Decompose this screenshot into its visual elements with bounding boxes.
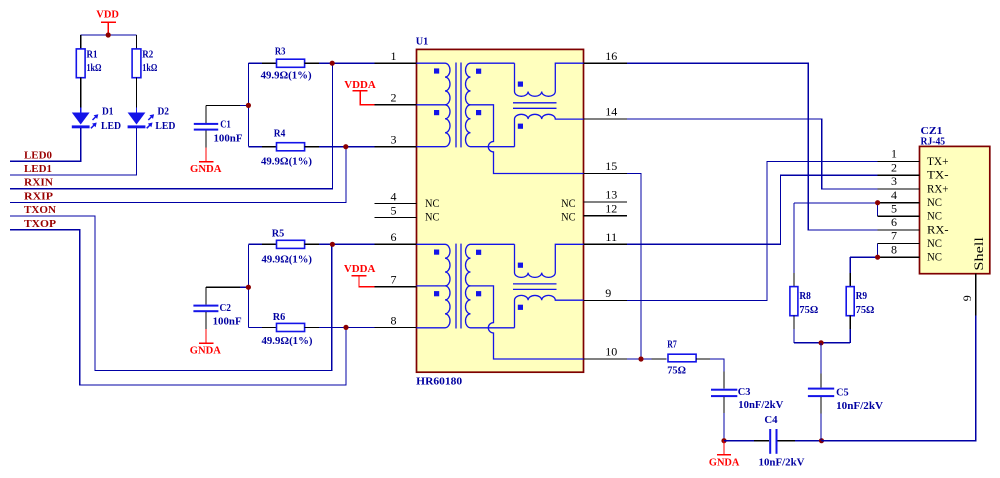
LED D1 (72, 105, 121, 132)
svg-text:8: 8 (891, 243, 897, 257)
svg-text:10nF/2kV: 10nF/2kV (759, 457, 805, 469)
svg-text:RXIP: RXIP (24, 190, 53, 202)
choke winding lower (upper) (515, 114, 584, 146)
choke core (lower) (513, 284, 557, 290)
wire R8-R9 rail (794, 342, 850, 344)
pin 10 of U1 (584, 345, 628, 359)
wire VDD rail (81, 34, 137, 36)
pin 7 of U1 (375, 273, 417, 287)
svg-text:6: 6 (891, 215, 897, 229)
pin 2 of CZ1 (878, 161, 949, 182)
pin R1 to D1 (80, 78, 82, 113)
pin R2 to D2 (136, 78, 138, 113)
pin 7 of CZ1 (878, 229, 942, 250)
junction R3 right (330, 61, 335, 66)
choke winding lower (lower) (515, 295, 584, 327)
resistor R3 (248, 46, 374, 82)
pin 13 of U1 (584, 188, 628, 202)
CZ1 value RJ-45 (921, 136, 946, 148)
svg-text:VDDA: VDDA (344, 79, 376, 91)
net label TXOP (24, 218, 56, 230)
wire net RXIN (10, 63, 332, 189)
wire R8 to RJ45 pins 4-5 (794, 203, 878, 216)
choke winding upper (upper) (515, 63, 584, 96)
svg-text:NC: NC (927, 195, 942, 209)
svg-text:RX-: RX- (927, 222, 949, 236)
secondary winding upper (upper) (466, 63, 471, 105)
svg-text:8: 8 (391, 313, 397, 327)
net label LED0 (24, 149, 52, 161)
power VDD (96, 9, 119, 35)
wire U1 primary tap lead (lower) (417, 285, 446, 287)
resistor R8 (790, 203, 818, 343)
resistor R2 (132, 49, 157, 78)
wire net LED1 (10, 128, 137, 175)
svg-text:NC: NC (425, 196, 439, 210)
wire U1.11 to RJ45 TX- (627, 175, 878, 244)
svg-text:NC: NC (425, 210, 439, 224)
svg-text:LED1: LED1 (24, 163, 52, 175)
pin 4 of CZ1 (878, 188, 942, 209)
svg-text:1kΩ: 1kΩ (87, 62, 102, 74)
svg-text:10nF/2kV: 10nF/2kV (836, 400, 883, 412)
wire U1 primary tap lead (upper) (417, 104, 446, 106)
capacitor C5 (808, 343, 883, 441)
U1 designator (416, 36, 429, 48)
junction C4 right (819, 438, 824, 443)
transformer core (lower) (456, 244, 461, 329)
svg-text:100nF: 100nF (213, 315, 242, 327)
svg-text:9: 9 (960, 295, 974, 301)
power GNDA C1 (190, 148, 222, 175)
wire U1.16 to RJ45 RX- (627, 63, 878, 230)
wire U1.9 to RJ45 TX+ (627, 161, 878, 300)
wire net TXOP (10, 230, 346, 385)
svg-text:R2: R2 (142, 49, 153, 61)
svg-text:LED: LED (101, 120, 121, 132)
LED D2 (128, 105, 176, 132)
wire R9 to RJ45 pins 7-8 (850, 243, 877, 257)
wire U1 primary bottom lead (lower) (417, 327, 446, 329)
svg-text:NC: NC (927, 236, 942, 250)
svg-text:10: 10 (605, 345, 617, 359)
wire secondary top to choke (upper) (471, 62, 515, 64)
primary winding upper (lower) (445, 244, 450, 286)
junction R5 right (330, 242, 335, 247)
junction VDD rail (106, 32, 111, 37)
pin R2 top (136, 35, 138, 49)
resistor R7 (652, 339, 725, 377)
net label RXIP (24, 190, 53, 202)
svg-text:1kΩ: 1kΩ (142, 62, 157, 74)
wire U1.14 to RJ45 RX+ (627, 119, 878, 189)
svg-text:R6: R6 (273, 311, 286, 323)
pin 11 of U1 (584, 230, 628, 244)
svg-text:TX-: TX- (927, 168, 949, 182)
power VDDA upper (344, 79, 376, 105)
svg-text:RXIN: RXIN (24, 177, 53, 189)
pin 8 of U1 (375, 313, 417, 327)
resistor R9 (846, 257, 874, 343)
svg-text:Shell: Shell (971, 237, 986, 271)
svg-text:11: 11 (605, 230, 617, 244)
wire R3-R4 left vertical (247, 63, 249, 147)
svg-text:VDD: VDD (96, 9, 119, 21)
svg-text:3: 3 (391, 133, 397, 147)
svg-text:4: 4 (391, 189, 397, 203)
pin 3 of CZ1 (878, 174, 949, 195)
polarity dots (lower) (434, 250, 523, 310)
svg-text:HR60180: HR60180 (416, 376, 463, 388)
svg-text:49.9Ω(1%): 49.9Ω(1%) (262, 254, 313, 266)
wire secondary tap with hop (upper) (471, 105, 584, 174)
wire secondary tap with hop (lower) (471, 286, 584, 359)
wire net TXON (10, 216, 332, 370)
transformer U1 body (417, 49, 584, 372)
svg-text:RX+: RX+ (927, 181, 949, 195)
CZ1 designator (921, 125, 943, 137)
primary winding lower (upper) (445, 105, 450, 147)
svg-text:100nF: 100nF (214, 133, 243, 145)
svg-text:NC: NC (927, 209, 942, 223)
svg-text:1: 1 (891, 147, 897, 161)
wire C1 top (206, 104, 248, 106)
junction CZ1 pin8 (875, 255, 880, 260)
junction C1 tap (246, 103, 251, 108)
pin 16 of U1 (584, 49, 628, 63)
svg-text:NC: NC (561, 196, 575, 210)
svg-text:16: 16 (605, 49, 617, 63)
wire U1 primary top lead (lower) (417, 243, 446, 245)
junction C3 bottom (721, 438, 726, 443)
svg-text:LED0: LED0 (24, 149, 52, 161)
secondary winding lower (upper) (466, 105, 471, 147)
CZ1 shell label (971, 237, 986, 271)
svg-text:GNDA: GNDA (190, 344, 221, 356)
pin 3 of U1 (375, 133, 417, 147)
svg-text:75Ω: 75Ω (667, 365, 686, 377)
pin 5 of CZ1 (878, 202, 942, 223)
svg-text:NC: NC (561, 210, 575, 224)
wire secondary bottom to choke (upper) (471, 146, 515, 148)
pin 2 of U1 (375, 91, 417, 105)
svg-text:12: 12 (605, 201, 617, 215)
wire U1 primary bottom lead (upper) (417, 146, 446, 148)
svg-text:NC: NC (927, 250, 942, 264)
svg-text:GNDA: GNDA (709, 457, 740, 469)
wire U1 primary top lead (upper) (417, 62, 446, 64)
pin 4 of U1 (375, 189, 417, 203)
pin 9 shell of CZ1 (960, 274, 976, 316)
svg-text:15: 15 (605, 159, 617, 173)
resistor R1 (76, 49, 101, 78)
junction C2 tap (246, 285, 251, 290)
U1 NC labels (425, 196, 576, 224)
secondary winding lower (lower) (466, 286, 471, 328)
svg-text:49.9Ω(1%): 49.9Ω(1%) (261, 70, 312, 82)
svg-text:7: 7 (891, 229, 897, 243)
resistor R6 (248, 311, 374, 347)
svg-text:14: 14 (605, 105, 617, 119)
svg-text:C1: C1 (220, 119, 230, 131)
resistor R4 (248, 128, 374, 168)
svg-text:4: 4 (891, 188, 897, 202)
svg-text:TX+: TX+ (927, 154, 949, 168)
power VDDA lower (344, 263, 376, 287)
svg-text:R1: R1 (87, 49, 98, 61)
junction CZ1 pin4 (875, 200, 880, 205)
wire net RXIP (10, 147, 346, 203)
pin 15 of U1 (584, 159, 628, 173)
svg-text:R8: R8 (799, 290, 811, 302)
svg-text:C4: C4 (764, 414, 778, 426)
pin 12 of U1 (584, 201, 628, 215)
pin 9 of U1 (584, 286, 628, 300)
svg-text:75Ω: 75Ω (799, 304, 818, 316)
connector CZ1 body (920, 146, 990, 273)
capacitor C3 (711, 372, 783, 441)
wire secondary bottom to choke (lower) (471, 327, 515, 329)
svg-text:C3: C3 (738, 386, 751, 398)
svg-text:R3: R3 (275, 46, 286, 58)
polarity dots (upper) (434, 68, 523, 128)
wire shell net (822, 316, 976, 441)
capacitor C1 (194, 105, 243, 147)
pin 1 of U1 (375, 49, 417, 63)
svg-text:TXON: TXON (24, 204, 56, 216)
capacitor C4 (724, 414, 822, 469)
svg-text:LED: LED (155, 120, 175, 132)
wire secondary top to choke (lower) (471, 243, 515, 245)
svg-text:R5: R5 (272, 227, 285, 239)
junction R4 right (343, 144, 348, 149)
choke core (upper) (513, 103, 557, 109)
junction R6 right (343, 325, 348, 330)
pin 1 of CZ1 (878, 147, 949, 168)
svg-text:49.9Ω(1%): 49.9Ω(1%) (262, 335, 313, 347)
svg-text:3: 3 (891, 174, 897, 188)
resistor R5 (248, 227, 374, 265)
pin 5 of U1 (375, 203, 417, 217)
svg-text:R4: R4 (274, 128, 286, 140)
primary winding upper (upper) (445, 63, 450, 105)
svg-text:TXOP: TXOP (24, 218, 56, 230)
junction node10 (638, 356, 643, 361)
svg-text:GNDA: GNDA (190, 163, 222, 175)
svg-text:6: 6 (391, 230, 397, 244)
svg-text:10nF/2kV: 10nF/2kV (738, 399, 783, 411)
svg-text:75Ω: 75Ω (856, 304, 875, 316)
secondary winding upper (lower) (466, 244, 471, 286)
svg-text:2: 2 (391, 91, 397, 105)
pin 8 of CZ1 (878, 243, 942, 264)
svg-text:C5: C5 (836, 387, 849, 399)
transformer core (upper) (456, 63, 461, 148)
pin R1 top (80, 35, 82, 49)
capacitor C2 (193, 287, 241, 329)
svg-text:2: 2 (891, 161, 897, 175)
pin 14 of U1 (584, 105, 628, 119)
svg-text:U1: U1 (416, 36, 429, 48)
svg-text:5: 5 (391, 203, 397, 217)
svg-text:9: 9 (605, 286, 611, 300)
svg-text:5: 5 (891, 202, 897, 216)
svg-text:RJ-45: RJ-45 (921, 136, 946, 148)
svg-text:1: 1 (391, 49, 397, 63)
svg-text:7: 7 (391, 273, 397, 287)
pin 6 of U1 (375, 230, 417, 244)
choke winding upper (lower) (515, 244, 584, 277)
U1 value HR60180 (416, 376, 463, 388)
wire C2 top (206, 286, 248, 288)
wire U1.15 to node10 (627, 174, 641, 360)
wire U1.10 to R7 (627, 358, 652, 360)
junction rail (819, 340, 824, 345)
svg-text:D2: D2 (158, 105, 170, 117)
wire net LED0 (10, 128, 81, 161)
svg-text:VDDA: VDDA (344, 263, 376, 275)
wire R5-R6 left vertical (247, 244, 249, 327)
power GNDA C3 (709, 441, 740, 469)
power GNDA C2 (190, 329, 221, 357)
svg-text:13: 13 (605, 188, 617, 202)
net label LED1 (24, 163, 52, 175)
svg-text:D1: D1 (102, 105, 114, 117)
pin 6 of CZ1 (878, 215, 949, 236)
svg-text:C2: C2 (220, 302, 232, 314)
net label RXIN (24, 177, 53, 189)
svg-text:49.9Ω(1%): 49.9Ω(1%) (261, 156, 312, 168)
svg-text:R9: R9 (856, 290, 868, 302)
svg-text:R7: R7 (667, 339, 677, 351)
net label TXON (24, 204, 56, 216)
primary winding lower (lower) (445, 286, 450, 328)
